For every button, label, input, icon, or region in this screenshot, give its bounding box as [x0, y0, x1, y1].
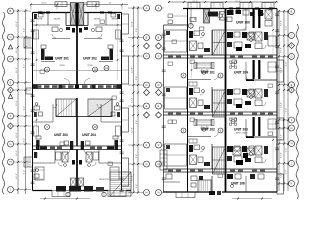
svg-text:12'-8": 12'-8"	[132, 21, 134, 27]
dimension text top right-wing	[192, 1, 241, 3]
bath unit204	[111, 103, 120, 117]
dark service band bottom b	[69, 186, 81, 192]
porch below right wing	[176, 192, 195, 198]
svg-text:24'-0": 24'-0"	[83, 3, 89, 5]
svg-text:UNIT 204: UNIT 204	[82, 133, 96, 137]
svg-text:3'-4": 3'-4"	[136, 154, 138, 159]
entry porch east of core	[87, 2, 99, 7]
core lower walls	[66, 13, 88, 26]
room NW of right wing	[188, 12, 225, 31]
svg-text:11'-1": 11'-1"	[16, 47, 18, 53]
grid diamond right 4	[289, 43, 295, 49]
dimension line left inner	[25, 9, 27, 194]
svg-text:G: G	[10, 143, 12, 146]
bedroom label c	[94, 19, 101, 21]
dimension text left stack	[16, 21, 26, 179]
svg-text:D: D	[291, 55, 293, 58]
svg-text:13'-4": 13'-4"	[281, 134, 283, 140]
black chase walls unit 104	[253, 60, 261, 79]
svg-text:G: G	[291, 127, 293, 130]
black chase walls unit 103	[253, 117, 261, 136]
partition unit101	[188, 76, 218, 80]
windows top wall left wing	[38, 12, 112, 14]
kitchen-bath cluster east row2	[227, 89, 268, 108]
faint interior dim right wing a	[191, 60, 193, 78]
deck strip box row3	[165, 144, 188, 166]
architectural floor plan sheet	[0, 0, 300, 200]
svg-text:3'-4": 3'-4"	[136, 28, 138, 33]
entry arcs row3	[65, 150, 89, 155]
match line right wavy	[296, 24, 298, 199]
floor divider wall 2b	[33, 149, 122, 151]
left wing bottom wall	[33, 190, 132, 192]
bed unit row3 east	[110, 167, 119, 180]
svg-text:D: D	[146, 84, 148, 87]
right wing west deck edge	[163, 25, 165, 192]
door tag circle row1 west	[45, 67, 50, 72]
svg-text:24'-0": 24'-0"	[41, 3, 47, 5]
door tag below left wing	[66, 192, 106, 196]
stair row2 east	[88, 99, 112, 117]
unit label UNIT 100	[236, 20, 250, 24]
svg-text:12'-8": 12'-8"	[132, 127, 134, 133]
kitchen unit202	[99, 45, 113, 62]
deck RW top 2	[211, 3, 223, 9]
bottom dim ticks right wing	[232, 197, 272, 199]
unit sublabel 103	[235, 132, 249, 135]
svg-text:3'-4": 3'-4"	[136, 76, 138, 81]
kitchen unit201	[41, 45, 55, 62]
bath row3 west	[56, 152, 69, 166]
kitchen-bath cluster east row1	[227, 32, 268, 51]
svg-text:LIVING: LIVING	[59, 65, 65, 67]
dimension text right stack	[281, 20, 288, 178]
svg-text:6'-0": 6'-0"	[286, 62, 288, 67]
kitchen 203 at west wall	[36, 136, 47, 150]
stair right wing row1	[213, 30, 226, 55]
stair landing row2	[213, 102, 226, 104]
fixtures row4 RW	[227, 174, 264, 188]
bath cluster west col row2	[189, 88, 210, 109]
door tag circles row2	[45, 125, 98, 130]
fixtures row3 corners	[34, 152, 39, 178]
dining set unit 103	[230, 118, 237, 125]
closet unit103	[268, 119, 276, 129]
svg-text:LIVING: LIVING	[87, 65, 93, 67]
faint interior dim left wing b	[117, 15, 119, 80]
floor divider RW 2a	[164, 111, 278, 113]
svg-text:13'-4": 13'-4"	[281, 67, 283, 73]
svg-text:C: C	[158, 55, 160, 58]
dimension line center inner	[137, 6, 139, 193]
dimension ticks top right-wing	[168, 1, 277, 3]
svg-text:C: C	[10, 36, 12, 39]
svg-text:11'-1": 11'-1"	[16, 67, 18, 73]
dimension line right 3	[287, 10, 289, 191]
bath row3 east	[86, 152, 99, 166]
faint interior dim right wing b	[272, 12, 274, 54]
svg-text:G: G	[158, 163, 160, 166]
dark service band bottom a	[56, 186, 66, 192]
closet row2 west	[34, 126, 39, 136]
dark service band bottom d	[96, 187, 104, 192]
svg-text:12'-8": 12'-8"	[132, 67, 134, 73]
partition row4 west	[164, 174, 180, 182]
keynote triangle left b	[8, 94, 12, 98]
svg-text:9'-2": 9'-2"	[24, 170, 26, 175]
svg-text:C: C	[146, 55, 148, 58]
svg-text:11'-1": 11'-1"	[16, 100, 18, 106]
balcony bay LW2	[122, 56, 129, 84]
core black wall between shafts	[76, 3, 78, 27]
svg-text:C: C	[291, 34, 293, 37]
closet row2 east	[116, 126, 121, 136]
floor divider wall 2a	[33, 145, 122, 147]
svg-text:D: D	[158, 84, 160, 87]
svg-text:UNIT 203: UNIT 203	[54, 133, 68, 137]
svg-text:H: H	[146, 192, 148, 195]
keynote boxes above left of wing	[168, 9, 191, 26]
fixtures in divider RW3	[168, 170, 265, 172]
left wing party wall lower	[76, 150, 78, 191]
fixtures in divider RW2	[168, 113, 273, 115]
right wing top-left return wall	[187, 9, 189, 26]
svg-text:BEDROOM: BEDROOM	[33, 179, 43, 181]
svg-text:UNIT 201: UNIT 201	[55, 57, 69, 61]
floor divider RW 3a	[164, 168, 278, 170]
shaft tower west	[70, 3, 75, 26]
left wing party wall mid	[76, 98, 78, 146]
svg-text:6'-0": 6'-0"	[286, 26, 288, 31]
right wing west main wall	[187, 25, 189, 192]
bottom dim ticks left wing	[40, 197, 90, 199]
party wall chase bits lower	[72, 160, 82, 165]
door tag circles row2 RW	[181, 73, 223, 78]
balcony bay RW2	[277, 118, 284, 140]
dimension line left outer	[17, 9, 19, 194]
unit label UNIT 204	[82, 133, 96, 137]
svg-text:UNIT 202: UNIT 202	[83, 57, 97, 61]
svg-text:H: H	[291, 143, 293, 146]
deck RW top 1	[188, 3, 200, 9]
svg-text:11'-1": 11'-1"	[16, 150, 18, 156]
right wing bottom wall	[164, 191, 278, 193]
porch below left wing east	[108, 191, 126, 197]
dimension line top right-wing	[168, 1, 278, 3]
svg-text:3'-4": 3'-4"	[136, 184, 138, 189]
svg-text:12'-8": 12'-8"	[132, 97, 134, 103]
dimension ticks left stack	[17, 10, 27, 191]
bedroom label row3 east	[99, 179, 109, 181]
svg-text:13'-4": 13'-4"	[281, 20, 283, 26]
bedroom partition NW	[33, 13, 61, 26]
bath cluster west col row3	[189, 145, 210, 166]
right wing east exterior wall	[276, 9, 278, 193]
partition unit203	[33, 104, 58, 122]
right wing top wall	[183, 8, 277, 10]
right wing corridor wall	[211, 30, 213, 192]
stair right wing row4	[198, 180, 211, 192]
partition unit104	[246, 62, 277, 81]
floor divider RW 1a	[164, 54, 278, 56]
partition unit204	[97, 104, 122, 122]
door tag circle row1 far-east	[104, 66, 109, 71]
partition unit106	[245, 176, 247, 192]
balcony bay RW1	[277, 60, 284, 82]
stair walls row2	[56, 99, 112, 117]
windows top wall right wing	[229, 8, 273, 10]
unit label UNIT 101	[201, 70, 215, 74]
shaft tower east	[79, 3, 84, 26]
partition row3 west	[33, 150, 56, 164]
windows west wall left wing	[31, 20, 35, 184]
unit label UNIT 106	[231, 181, 245, 185]
dimension ticks center stack	[132, 7, 139, 194]
deck strip box row1	[165, 30, 188, 52]
left wing party wall upper	[76, 13, 78, 85]
balcony bay RW3	[277, 174, 284, 194]
kitchen-bath cluster east row3	[227, 146, 268, 165]
dark service band bottom c	[84, 186, 93, 192]
grid bubbles left column	[8, 8, 32, 193]
stair row2 west	[56, 99, 76, 117]
svg-text:6'-0": 6'-0"	[286, 148, 288, 153]
svg-text:BEDROOM: BEDROOM	[99, 179, 109, 181]
unit label UNIT 102	[201, 127, 215, 131]
right wing step wall	[164, 24, 188, 26]
svg-text:11'-1": 11'-1"	[16, 173, 18, 179]
closet unit101	[189, 82, 197, 86]
closet east wall	[116, 30, 121, 39]
dining set unit 104	[230, 61, 237, 68]
match line left wavy	[3, 12, 5, 194]
balcony bay LW1	[122, 14, 129, 34]
entry arcs row1	[64, 79, 90, 85]
stair right wing row2	[213, 90, 226, 117]
elevator shaft right wing	[204, 9, 210, 23]
bath unit203	[34, 103, 43, 117]
dining set unit 102	[201, 127, 208, 131]
closet fixtures NW corner	[34, 12, 45, 19]
windows east wall right wing	[275, 14, 279, 180]
floor divider wall 1a	[33, 84, 122, 86]
unit label UNIT 103	[234, 127, 248, 131]
bath unit 100	[261, 10, 272, 26]
stair landing row3	[213, 159, 226, 161]
balcony bay LW3	[122, 108, 129, 132]
grid diamond left 2	[8, 87, 32, 93]
left wing west exterior wall	[32, 13, 34, 191]
grid diamond right 5	[289, 87, 295, 93]
couch unit102	[194, 120, 214, 126]
stair landing row1	[213, 42, 226, 44]
bedroom label d	[112, 19, 119, 21]
deck strip box row2	[165, 87, 188, 109]
fixtures in divider RW1	[168, 56, 273, 58]
fixture band rows 1-2	[33, 85, 121, 89]
west edge porch mid	[26, 88, 33, 94]
grid diamonds center	[144, 43, 162, 118]
bath cluster unit201	[52, 27, 70, 39]
dining set unit 101	[201, 70, 208, 74]
party wall chase bits	[72, 28, 82, 33]
svg-text:H: H	[10, 161, 12, 164]
svg-text:13'-4": 13'-4"	[281, 102, 283, 108]
closet unit104	[268, 62, 276, 72]
keynote triangle left a	[8, 45, 12, 49]
windows west wall right wing	[162, 34, 166, 180]
grid bubbles center-left column	[128, 5, 150, 196]
svg-text:UNIT 100: UNIT 100	[236, 20, 250, 24]
svg-text:D: D	[10, 58, 12, 61]
floor divider wall 1b	[33, 88, 122, 90]
windows east wall left wing	[120, 40, 124, 192]
kitchen 204 at east wall	[107, 136, 118, 150]
bath cluster west col row1	[189, 31, 210, 52]
dimension line right 1	[278, 10, 280, 191]
dimension line right 2	[283, 10, 285, 191]
partition unit 100	[226, 9, 246, 31]
svg-text:9'-2": 9'-2"	[24, 28, 26, 33]
partition row3 east	[99, 150, 122, 164]
window seat row1 east	[268, 36, 276, 46]
svg-text:11'-1": 11'-1"	[16, 132, 18, 138]
svg-text:9'-2": 9'-2"	[24, 138, 26, 143]
svg-text:13'-4": 13'-4"	[281, 152, 283, 158]
fixture band rows 2-3	[50, 147, 102, 150]
closet west wall	[34, 30, 39, 39]
svg-text:BEDRM: BEDRM	[94, 19, 101, 21]
right wing party wall	[225, 9, 227, 193]
dimension text top left-wing	[41, 3, 112, 5]
line across row1	[33, 70, 122, 72]
grid bubbles center-right column	[156, 5, 165, 196]
svg-text:H: H	[158, 192, 160, 195]
svg-text:6'-0": 6'-0"	[286, 108, 288, 113]
svg-text:12'-8": 12'-8"	[132, 175, 134, 181]
tub pair bottom party wall	[71, 178, 84, 186]
exterior stoop west lower	[24, 157, 33, 167]
door tag circles row3 RW	[181, 128, 223, 133]
floor divider RW 2b	[164, 114, 278, 116]
porch below left wing west	[52, 191, 70, 197]
svg-text:6'-0": 6'-0"	[286, 170, 288, 175]
living label 202	[87, 65, 93, 67]
dimension text center stack	[132, 21, 139, 188]
stair right wing row3	[213, 147, 226, 174]
left wing east exterior wall	[121, 13, 123, 191]
svg-text:13'-4": 13'-4"	[281, 47, 283, 53]
entry porch west of core	[55, 2, 67, 7]
exterior stoop west upper	[24, 38, 33, 48]
left wing top wall	[33, 12, 122, 14]
door tag circle row1 east	[93, 67, 98, 72]
partition unit102	[188, 133, 218, 137]
svg-text:9'-2": 9'-2"	[24, 106, 26, 111]
bed unit row3 west	[35, 167, 44, 180]
deck RW top 3	[240, 3, 252, 9]
svg-text:13'-4": 13'-4"	[281, 172, 283, 178]
svg-text:3'-4": 3'-4"	[136, 120, 138, 125]
faint interior dim left wing a	[36, 15, 38, 80]
svg-text:G: G	[146, 163, 148, 166]
dimension ticks top left-wing	[30, 3, 123, 9]
partition unit103	[246, 119, 277, 138]
svg-text:11'-1": 11'-1"	[16, 21, 18, 27]
dimension line top left-wing	[30, 4, 128, 6]
bath cluster unit202	[84, 27, 102, 39]
kitchen cluster unit 100	[227, 10, 263, 22]
unit label UNIT 202	[83, 57, 97, 61]
deck RW top 4	[262, 3, 274, 9]
bedroom label row3 west	[33, 179, 43, 181]
svg-text:BEDRM: BEDRM	[54, 19, 61, 21]
bedroom label b	[54, 19, 61, 21]
grid bubbles right column	[278, 8, 295, 186]
dark marks below right wing party	[209, 191, 221, 195]
svg-text:9'-2": 9'-2"	[24, 64, 26, 69]
bedroom partition NE	[94, 13, 122, 26]
floor divider RW 1b	[164, 57, 278, 59]
balcony bay LW4	[122, 158, 129, 186]
closet unit102	[189, 139, 197, 143]
closet fixtures NE corner	[111, 14, 120, 20]
stair bottom left-wing	[110, 172, 131, 196]
floor divider RW 3b	[164, 171, 278, 173]
unit label UNIT 203	[54, 133, 68, 137]
bedroom label a	[36, 19, 43, 21]
exterior stair west wall RW	[160, 150, 167, 170]
faint interior dim right wing c	[272, 120, 274, 168]
unit label UNIT 104	[234, 70, 248, 74]
couch unit101	[194, 63, 214, 69]
living label 201	[59, 65, 65, 67]
keynote boxes scattered	[40, 14, 272, 177]
row4 west fixtures RW	[191, 176, 203, 187]
kitchen center pair	[64, 141, 90, 150]
dimension ticks right stack	[278, 10, 289, 184]
faint interior dim left wing c	[36, 104, 38, 144]
unit label UNIT 201	[55, 57, 69, 61]
dimension line center outer	[133, 6, 135, 193]
black chase walls unit 100	[253, 9, 261, 28]
grid diamond left 3	[8, 123, 32, 129]
